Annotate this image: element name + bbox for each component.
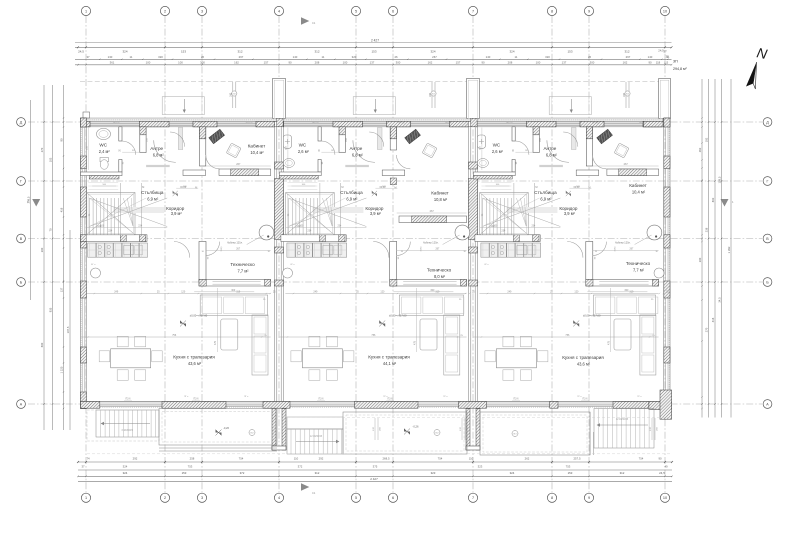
svg-text:90: 90 bbox=[60, 138, 64, 141]
svg-text:Антре: Антре bbox=[543, 146, 556, 151]
svg-text:3: 3 bbox=[201, 9, 203, 13]
svg-text:756: 756 bbox=[565, 334, 570, 337]
svg-text:100: 100 bbox=[296, 225, 301, 228]
svg-text:бойлер 120л.: бойлер 120л. bbox=[615, 241, 631, 244]
svg-text:188,5: 188,5 bbox=[718, 176, 722, 183]
svg-text:Стълбища: Стълбища bbox=[340, 190, 363, 195]
svg-text:ПЗ б: ПЗ б bbox=[583, 398, 589, 400]
svg-text:475: 475 bbox=[413, 340, 416, 345]
svg-text:Техническо: Техническо bbox=[427, 268, 452, 273]
svg-text:300: 300 bbox=[624, 289, 629, 292]
svg-text:312: 312 bbox=[314, 50, 319, 54]
svg-text:153: 153 bbox=[182, 471, 187, 475]
svg-text:120: 120 bbox=[380, 290, 385, 293]
svg-text:318,5: 318,5 bbox=[221, 246, 223, 252]
svg-text:6: 6 bbox=[392, 9, 394, 13]
svg-text:5: 5 bbox=[355, 9, 357, 13]
svg-text:238: 238 bbox=[705, 227, 709, 232]
svg-text:754: 754 bbox=[438, 457, 443, 461]
svg-text:6,9 м²: 6,9 м² bbox=[346, 197, 358, 202]
svg-text:262: 262 bbox=[698, 147, 702, 152]
svg-text:372: 372 bbox=[298, 465, 303, 469]
svg-text:3,9 м²: 3,9 м² bbox=[370, 211, 382, 216]
svg-text:ПЗ б: ПЗ б bbox=[126, 398, 132, 400]
svg-text:324: 324 bbox=[510, 471, 515, 475]
svg-text:100: 100 bbox=[343, 61, 348, 65]
svg-text:Техническо: Техническо bbox=[230, 262, 255, 267]
svg-text:115: 115 bbox=[664, 61, 669, 65]
svg-text:258: 258 bbox=[190, 457, 195, 461]
svg-text:37: 37 bbox=[663, 50, 667, 54]
svg-text:4: 4 bbox=[278, 9, 280, 13]
svg-text:90: 90 bbox=[288, 61, 292, 65]
svg-text:ПР 100: ПР 100 bbox=[506, 123, 514, 125]
svg-text:100: 100 bbox=[146, 61, 151, 65]
svg-text:8: 8 bbox=[551, 496, 553, 500]
svg-text:Кабинет: Кабинет bbox=[629, 183, 647, 188]
svg-text:ПГ2: ПГ2 bbox=[513, 434, 516, 436]
svg-text:268,5: 268,5 bbox=[383, 457, 390, 461]
svg-text:8: 8 bbox=[551, 9, 553, 13]
svg-text:100: 100 bbox=[97, 225, 102, 228]
svg-text:Кухня с трапезария: Кухня с трапезария bbox=[562, 355, 604, 360]
svg-text:100: 100 bbox=[536, 61, 541, 65]
svg-text:267: 267 bbox=[236, 163, 241, 166]
svg-text:C1: C1 bbox=[312, 491, 316, 495]
svg-text:262: 262 bbox=[525, 457, 530, 461]
svg-text:6,8 м²: 6,8 м² bbox=[352, 152, 364, 157]
svg-text:Г: Г bbox=[20, 179, 22, 183]
svg-text:2,4 м²: 2,4 м² bbox=[99, 149, 111, 154]
svg-text:312: 312 bbox=[624, 50, 629, 54]
svg-text:ПР 100: ПР 100 bbox=[312, 123, 320, 125]
svg-text:118: 118 bbox=[656, 60, 661, 64]
svg-text:3: 3 bbox=[201, 496, 203, 500]
svg-text:11: 11 bbox=[322, 55, 325, 59]
svg-text:7: 7 bbox=[472, 496, 474, 500]
svg-text:ПЗ б: ПЗ б bbox=[514, 398, 520, 400]
svg-text:6,9 м²: 6,9 м² bbox=[540, 197, 552, 202]
svg-text:74: 74 bbox=[86, 457, 90, 461]
svg-text:292: 292 bbox=[319, 457, 324, 461]
svg-text:1 392: 1 392 bbox=[727, 246, 731, 253]
svg-text:11: 11 bbox=[130, 55, 133, 59]
svg-text:ПП 100: ПП 100 bbox=[445, 123, 453, 125]
svg-text:Кухня с трапезария: Кухня с трапезария bbox=[173, 355, 215, 360]
svg-text:1: 1 bbox=[85, 496, 87, 500]
svg-text:754: 754 bbox=[639, 457, 644, 461]
svg-text:162: 162 bbox=[234, 61, 239, 65]
svg-text:208: 208 bbox=[508, 61, 513, 65]
svg-text:137: 137 bbox=[60, 287, 64, 292]
svg-text:300: 300 bbox=[200, 61, 205, 65]
svg-text:600: 600 bbox=[40, 342, 44, 347]
svg-text:130: 130 bbox=[108, 55, 113, 59]
svg-text:WC: WC bbox=[99, 142, 107, 147]
svg-text:М: М bbox=[394, 186, 396, 190]
svg-text:Кабинет: Кабинет bbox=[431, 191, 449, 196]
svg-text:319: 319 bbox=[236, 290, 241, 293]
svg-text:270: 270 bbox=[705, 327, 709, 332]
svg-text:90: 90 bbox=[481, 61, 485, 65]
svg-text:ПП 100: ПП 100 bbox=[639, 123, 647, 125]
svg-text:320: 320 bbox=[545, 55, 550, 59]
svg-text:294,8 м²: 294,8 м² bbox=[673, 67, 687, 71]
svg-text:318,5: 318,5 bbox=[614, 246, 616, 252]
svg-text:140: 140 bbox=[648, 55, 653, 59]
svg-text:153: 153 bbox=[371, 50, 376, 54]
svg-text:234: 234 bbox=[307, 230, 312, 233]
svg-text:300: 300 bbox=[698, 257, 702, 262]
svg-text:312: 312 bbox=[620, 471, 625, 475]
svg-text:292: 292 bbox=[133, 457, 138, 461]
svg-text:324: 324 bbox=[509, 50, 514, 54]
svg-text:312: 312 bbox=[237, 50, 242, 54]
svg-text:Антре: Антре bbox=[150, 146, 163, 151]
svg-text:162: 162 bbox=[428, 61, 433, 65]
svg-text:ЗП: ЗП bbox=[673, 60, 678, 64]
svg-text:157: 157 bbox=[264, 61, 269, 65]
svg-text:267: 267 bbox=[626, 55, 631, 59]
svg-text:208: 208 bbox=[315, 61, 320, 65]
svg-text:ПП 100: ПП 100 bbox=[246, 123, 254, 125]
svg-text:ПР 100: ПР 100 bbox=[199, 123, 207, 125]
svg-text:26: 26 bbox=[394, 55, 398, 59]
svg-text:4: 4 bbox=[278, 496, 280, 500]
svg-text:319: 319 bbox=[629, 290, 634, 293]
svg-text:ПР 100: ПР 100 bbox=[113, 123, 121, 125]
svg-text:-0,26: -0,26 bbox=[223, 426, 230, 430]
svg-text:49: 49 bbox=[664, 465, 668, 469]
svg-text:WC: WC bbox=[299, 142, 307, 147]
svg-text:6: 6 bbox=[392, 496, 394, 500]
svg-text:Стълбища: Стълбища bbox=[141, 190, 164, 195]
svg-text:107,5: 107,5 bbox=[66, 326, 70, 333]
svg-text:70: 70 bbox=[49, 228, 53, 231]
svg-text:234: 234 bbox=[108, 230, 113, 233]
svg-text:24,5: 24,5 bbox=[659, 471, 665, 475]
svg-text:267: 267 bbox=[624, 163, 629, 166]
svg-text:249: 249 bbox=[114, 290, 119, 293]
svg-text:10: 10 bbox=[663, 9, 667, 13]
svg-text:М: М bbox=[341, 185, 343, 189]
svg-text:110: 110 bbox=[469, 457, 474, 461]
svg-text:267: 267 bbox=[432, 55, 437, 59]
svg-text:300: 300 bbox=[590, 61, 595, 65]
svg-text:Вт2: Вт2 bbox=[251, 433, 254, 435]
svg-text:298,5: 298,5 bbox=[27, 196, 31, 203]
svg-text:ПЗ б: ПЗ б bbox=[194, 398, 200, 400]
svg-text:3,9 м²: 3,9 м² bbox=[171, 211, 183, 216]
svg-text:324: 324 bbox=[430, 50, 435, 54]
svg-text:2 427: 2 427 bbox=[371, 38, 379, 42]
svg-text:110: 110 bbox=[294, 457, 299, 461]
svg-text:416: 416 bbox=[711, 317, 715, 322]
svg-text:90: 90 bbox=[648, 61, 652, 65]
svg-text:3,9 м²: 3,9 м² bbox=[564, 211, 576, 216]
svg-text:3 16/30/15: 3 16/30/15 bbox=[121, 429, 133, 432]
svg-text:9: 9 bbox=[588, 9, 590, 13]
svg-text:361: 361 bbox=[110, 61, 115, 65]
svg-text:475: 475 bbox=[607, 340, 610, 345]
svg-text:26: 26 bbox=[201, 55, 205, 59]
svg-text:318,5: 318,5 bbox=[420, 246, 422, 252]
svg-text:103: 103 bbox=[49, 157, 53, 162]
svg-text:М: М bbox=[142, 185, 144, 189]
svg-text:416: 416 bbox=[60, 207, 64, 212]
svg-text:153: 153 bbox=[568, 471, 573, 475]
svg-text:300: 300 bbox=[40, 247, 44, 252]
svg-text:10,4 м²: 10,4 м² bbox=[632, 189, 646, 194]
svg-text:90: 90 bbox=[658, 457, 662, 461]
svg-text:6,8 м²: 6,8 м² bbox=[546, 152, 558, 157]
svg-text:C1: C1 bbox=[312, 21, 316, 25]
svg-text:2,6 м²: 2,6 м² bbox=[298, 149, 310, 154]
svg-text:12 16/30/15: 12 16/30/15 bbox=[310, 436, 323, 438]
svg-text:7: 7 bbox=[472, 9, 474, 13]
svg-text:ПЗ б: ПЗ б bbox=[388, 398, 394, 400]
svg-text:11: 11 bbox=[515, 55, 518, 59]
svg-text:375: 375 bbox=[373, 465, 378, 469]
svg-text:бойлер 120л.: бойлер 120л. bbox=[227, 241, 243, 244]
svg-text:300: 300 bbox=[430, 289, 435, 292]
svg-text:26: 26 bbox=[588, 55, 592, 59]
svg-text:323: 323 bbox=[431, 471, 436, 475]
svg-text:34,5: 34,5 bbox=[718, 297, 722, 303]
svg-text:7,7 м²: 7,7 м² bbox=[237, 268, 249, 273]
svg-text:162: 162 bbox=[623, 61, 628, 65]
svg-text:43,6 м²: 43,6 м² bbox=[188, 361, 202, 366]
svg-text:935: 935 bbox=[49, 307, 53, 312]
svg-text:44,1 м²: 44,1 м² bbox=[383, 361, 397, 366]
svg-text:6,8 м²: 6,8 м² bbox=[153, 152, 165, 157]
svg-text:2,6 м²: 2,6 м² bbox=[492, 149, 504, 154]
svg-text:Г: Г bbox=[767, 179, 769, 183]
svg-text:267: 267 bbox=[239, 55, 244, 59]
svg-text:37: 37 bbox=[665, 55, 669, 59]
svg-text:37: 37 bbox=[81, 465, 85, 469]
svg-text:100: 100 bbox=[490, 225, 495, 228]
svg-text:бойлер 120л.: бойлер 120л. bbox=[423, 241, 439, 244]
svg-text:1: 1 bbox=[85, 9, 87, 13]
svg-text:-0,26: -0,26 bbox=[412, 425, 419, 429]
svg-text:М: М bbox=[588, 186, 590, 190]
svg-text:320: 320 bbox=[158, 55, 163, 59]
svg-text:WC: WC bbox=[493, 142, 501, 147]
svg-text:192: 192 bbox=[705, 137, 709, 142]
svg-text:10: 10 bbox=[663, 496, 667, 500]
svg-text:756: 756 bbox=[371, 334, 376, 337]
svg-text:257,5: 257,5 bbox=[574, 457, 581, 461]
svg-text:372: 372 bbox=[240, 471, 245, 475]
svg-text:1 225: 1 225 bbox=[60, 366, 64, 373]
svg-text:157: 157 bbox=[456, 61, 461, 65]
svg-text:756: 756 bbox=[172, 334, 177, 337]
svg-text:12 16/30/15: 12 16/30/15 bbox=[616, 419, 629, 421]
svg-text:2: 2 bbox=[164, 9, 166, 13]
svg-text:267: 267 bbox=[430, 210, 435, 213]
svg-text:Техническо: Техническо bbox=[626, 261, 651, 266]
svg-text:8,0 м²: 8,0 м² bbox=[434, 274, 446, 279]
svg-text:±0,00=+617,60: ±0,00=+617,60 bbox=[190, 313, 208, 317]
svg-text:ПР 100: ПР 100 bbox=[398, 123, 406, 125]
svg-text:140: 140 bbox=[486, 55, 491, 59]
svg-text:37: 37 bbox=[86, 55, 90, 59]
svg-text:9: 9 bbox=[588, 496, 590, 500]
svg-text:300: 300 bbox=[231, 289, 236, 292]
svg-text:24,5: 24,5 bbox=[658, 49, 664, 53]
svg-text:324: 324 bbox=[123, 471, 128, 475]
svg-text:Кабинет: Кабинет bbox=[248, 144, 266, 149]
svg-text:Стълбища: Стълбища bbox=[534, 190, 557, 195]
svg-text:312: 312 bbox=[315, 471, 320, 475]
svg-text:М: М bbox=[195, 186, 197, 190]
svg-text:43,6 м²: 43,6 м² bbox=[577, 361, 591, 366]
svg-text:324: 324 bbox=[123, 465, 128, 469]
svg-text:319: 319 bbox=[435, 290, 440, 293]
svg-text:137: 137 bbox=[370, 61, 375, 65]
svg-text:±0,00=+617,60: ±0,00=+617,60 bbox=[389, 313, 407, 317]
svg-text:754: 754 bbox=[239, 457, 244, 461]
svg-text:5: 5 bbox=[355, 496, 357, 500]
svg-text:753: 753 bbox=[566, 465, 571, 469]
svg-text:475: 475 bbox=[214, 340, 217, 345]
svg-text:Вт2: Вт2 bbox=[436, 433, 439, 435]
svg-text:2: 2 bbox=[164, 496, 166, 500]
svg-text:±0,00=+617,60: ±0,00=+617,60 bbox=[583, 313, 601, 317]
svg-text:100: 100 bbox=[178, 61, 183, 65]
svg-text:324: 324 bbox=[122, 50, 127, 54]
svg-text:249: 249 bbox=[313, 290, 318, 293]
svg-text:140: 140 bbox=[293, 55, 298, 59]
svg-text:ПЗ б: ПЗ б bbox=[319, 398, 325, 400]
svg-text:270: 270 bbox=[40, 147, 44, 152]
svg-text:10,4 м²: 10,4 м² bbox=[250, 150, 264, 155]
svg-text:Кухня с трапезария: Кухня с трапезария bbox=[368, 355, 410, 360]
svg-text:120: 120 bbox=[574, 290, 579, 293]
svg-text:2 427: 2 427 bbox=[370, 477, 378, 481]
svg-text:249: 249 bbox=[507, 290, 512, 293]
svg-text:24,5: 24,5 bbox=[78, 50, 84, 54]
svg-text:753: 753 bbox=[188, 465, 193, 469]
svg-text:ПР 100: ПР 100 bbox=[592, 123, 600, 125]
svg-text:М: М bbox=[535, 185, 537, 189]
svg-text:7,7 м²: 7,7 м² bbox=[633, 267, 645, 272]
svg-text:10,8 м²: 10,8 м² bbox=[434, 197, 448, 202]
svg-text:300: 300 bbox=[396, 61, 401, 65]
svg-text:323: 323 bbox=[478, 465, 483, 469]
svg-text:234: 234 bbox=[501, 230, 506, 233]
svg-text:120: 120 bbox=[181, 290, 186, 293]
svg-text:320: 320 bbox=[352, 55, 357, 59]
svg-text:137: 137 bbox=[562, 61, 567, 65]
svg-text:6,9 м²: 6,9 м² bbox=[147, 197, 159, 202]
svg-text:153: 153 bbox=[567, 50, 572, 54]
svg-text:802: 802 bbox=[711, 197, 715, 202]
svg-text:Антре: Антре bbox=[349, 146, 362, 151]
svg-text:153: 153 bbox=[181, 50, 186, 54]
